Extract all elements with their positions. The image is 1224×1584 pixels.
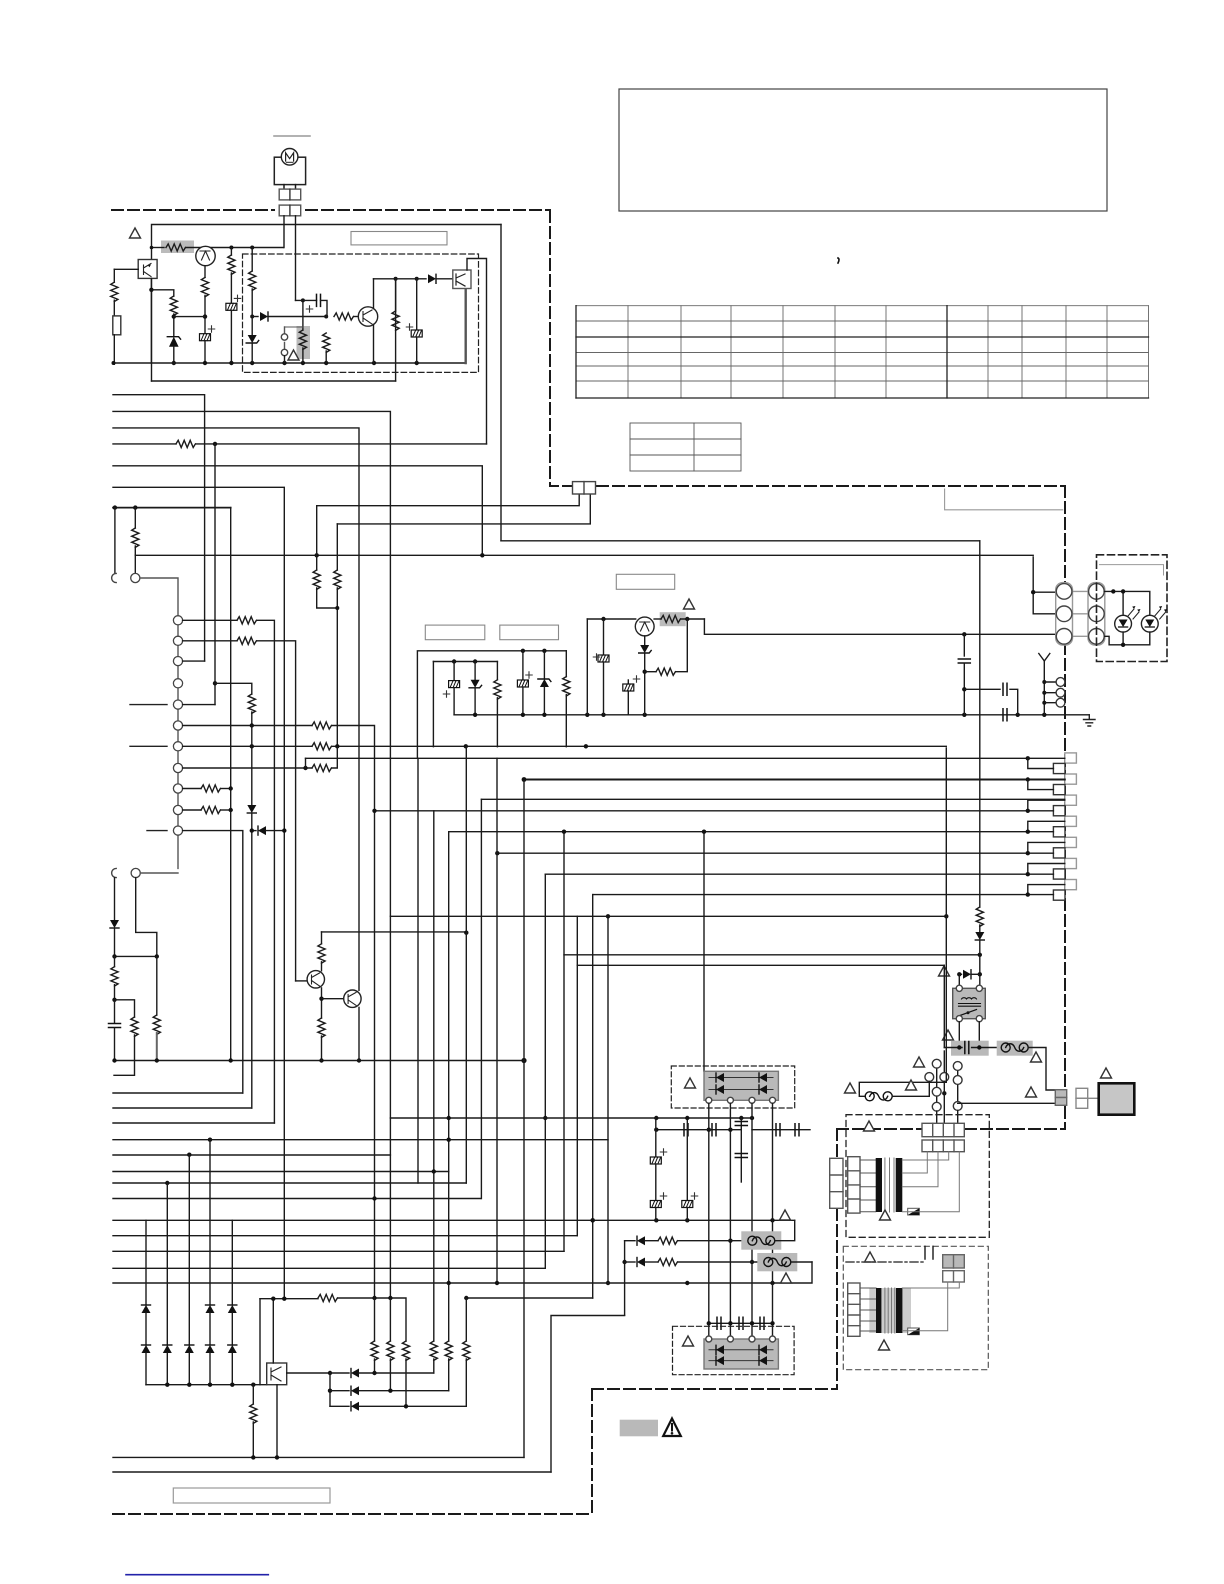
output wire down right [704,619,1055,634]
wire y555.3 [135,554,1033,556]
boundary y486 main [597,485,1065,487]
chain x979.8 down [979,541,981,907]
wire boundary vertical x550 [549,211,551,486]
block outline top [152,225,502,382]
box output down [276,1385,278,1458]
transistors Q1 Q2 [296,980,308,982]
long wire y1171.5 [113,1171,449,1173]
small table [630,423,741,471]
bridge vertical feeds [709,1103,773,1339]
wire y965.3 [577,964,944,966]
wires to connector [1033,557,1056,614]
cap on motor wire2 [296,299,317,301]
jumper circles [284,327,286,349]
boundary y1129 [837,1128,1065,1130]
resistor R-a [496,662,498,680]
branch resistor x251.8 [213,681,217,685]
main bus y1060.5 [115,1060,525,1062]
wire y540.8 [501,540,980,542]
bottom label box [173,1488,330,1503]
long wire y1200.5 [113,1198,481,1200]
wire to AC tabs [958,1102,1056,1104]
lower connector pin pair [112,868,117,877]
connector ladder CN2 [177,625,179,869]
main bus y714.8 [454,714,1089,716]
bridge rectifier D-B2 [673,1326,795,1374]
wire y916.3 [390,915,946,917]
vertical x577.3 [576,916,578,1235]
motor connector CN upper [279,189,301,200]
vertical x524 [523,780,525,1457]
resistor row y1298 [259,1299,261,1385]
stub marks [130,705,167,831]
photo transistor box [267,1363,287,1385]
T1 right wires [902,1152,959,1212]
row 788 [183,788,201,790]
zener D-a [474,662,476,680]
boundary x837 [836,1129,838,1389]
T2 core [869,1288,911,1333]
motor M1 circle [281,149,298,166]
gray resistor vertical [297,326,311,359]
caution gray box [620,1420,658,1437]
inner dashed box [243,254,479,372]
cap C-a [453,662,455,681]
boundary y486 left stub [550,485,572,487]
ecap at 416.7 [416,279,418,330]
LED wiring [1104,591,1150,615]
label box empty [351,232,447,245]
motor legs [284,185,296,190]
diode column x210 [209,1140,211,1305]
connector half pin pair row1 [112,573,117,582]
vertical x704 to bridge [703,832,705,1072]
long wire y1251.3 [113,1250,564,1252]
switch cluster circles [937,1068,958,1102]
T1 connector columns [830,1158,843,1208]
row 620 [183,619,237,621]
bus wire y411.4 [113,411,390,1298]
electrolytic columns [655,1118,657,1157]
tab wires [306,757,1065,759]
row 704 [183,704,215,706]
tab column [1053,753,1076,900]
motor overline [274,135,310,137]
LED dashed box [1097,555,1168,662]
motor M1 body [274,157,305,184]
row 810 [183,809,201,811]
LED2 [1141,615,1158,632]
fuse block [997,1041,1033,1056]
diode column x146 [145,1220,147,1305]
zener left [251,317,253,336]
connector rows above transformer1 [922,1123,964,1136]
resistor R-b [565,651,567,677]
R inside dashed box left [251,248,253,272]
label bracket under boundary [945,489,1063,510]
wire x273.3 up [272,1298,274,1363]
cap row y689.3 [964,688,1000,690]
diode column x189.3 [188,1155,190,1345]
resistor mid [323,333,330,352]
block bottom wire y381 [152,380,396,382]
wire y1123 [113,1122,274,1124]
diode horizontal [252,316,258,318]
transformer1 dashed box [846,1115,989,1238]
row 746 [183,745,312,747]
diode bus y1384.7 [146,1384,267,1386]
resistor to CN pin2 [134,508,136,528]
boundary y1514 bottom [113,1513,592,1515]
ecap column x231.4 [229,246,233,250]
wire y1108 [113,1107,252,1109]
wire x501 down right side [500,225,502,541]
PCB dash-dot boundary top [112,209,274,211]
vertical x466.3 [465,746,467,1183]
vertical x560.7 [563,832,565,1252]
x252 down with diode [251,726,253,806]
diode column x167.3 [166,1183,168,1345]
six resistors [374,1298,376,1341]
AC gray tabs [1055,1090,1066,1098]
jumper socket [113,316,121,335]
wire x151.4 through coupler [150,278,152,363]
left resistor column [114,268,138,270]
cap C-b [522,651,524,680]
bus wire y427.9 [113,428,359,990]
relay RY1 [953,988,986,1018]
filter sub-box outer [417,651,566,758]
collector wire up and right [467,259,487,444]
bus wire y507.6 thick [113,507,231,509]
boundary x592 [591,1389,593,1514]
antenna [1039,654,1050,715]
resistor under Q-A [204,266,206,278]
label boxes pair [425,625,485,640]
resistors x316.7 x337.3 [316,506,318,570]
regulator label box [616,574,674,589]
AC white tabs [1076,1088,1088,1098]
row 641 [183,640,237,642]
wire x395.6 [395,279,397,381]
transformer2 dashed box [843,1246,988,1369]
T1 core [860,1160,876,1212]
branch to zener column [151,290,173,296]
fuse left [859,748,946,1092]
diode rows [287,1372,330,1374]
base resistor + Q-B [334,313,353,320]
left lower chain [114,878,116,920]
cap row y1323.3 [709,1322,773,1324]
AC plug [1101,1068,1112,1078]
long wire y1154.7 [113,1154,390,1156]
NPN box Q-C [453,270,471,289]
LED1 [1115,615,1132,632]
long wire y1472 [113,1471,551,1473]
small ecap left of zener [627,680,629,684]
cap block [943,1030,954,1040]
long wire y1220.3 [113,1219,795,1221]
boundary x1065 upper [1064,486,1066,585]
row 661 [183,660,205,662]
caps chain x964.3 [963,634,965,656]
vertical x608 [607,916,609,1283]
vertical x448.7 [448,832,450,1341]
regulator transistor Q-R [587,618,635,620]
wire pad to circuit [284,216,296,301]
big table grid [576,306,1149,398]
T2 right wires [902,1282,959,1331]
blue link line [126,1574,268,1576]
fuse row1 y1240.7 [625,1240,635,1242]
vertical x545.3 [544,874,546,1268]
gray resistor on top [660,612,686,626]
cap x587.3 [586,619,588,715]
photo-coupler PC1 [138,260,157,279]
zener D-b up [543,651,545,679]
title box [619,89,1107,211]
resistor at 395.6 [395,279,397,311]
diode to relay [959,973,961,975]
T2 connector column [848,1283,860,1336]
x944.3 feed [943,965,945,1047]
zener under Q-R [644,636,646,645]
ground symbol right [1084,715,1096,726]
fuse row2 y1262 [624,1241,626,1315]
long wire y1183 [113,1182,466,1184]
vertical x497 [496,758,498,1283]
cap x603.5 [603,619,605,655]
connector block CN-L [1056,583,1105,645]
bold warning triangle [663,1419,681,1437]
transistor Q-A circle [196,246,215,265]
double cap x741.3 [740,1118,742,1182]
boundary y1389 [592,1388,837,1390]
long wire y1268.3 [113,1267,545,1269]
step y1298b [466,1297,592,1299]
warning triangle [130,228,141,238]
wire y954.8 [564,954,980,956]
step y1315.1 [551,1316,625,1473]
wire y1118 [390,1117,752,1119]
cap row on bus [1003,709,1007,721]
long wire y1235.7 [113,1235,577,1237]
bridge rectifier D-B1 [671,1066,794,1108]
row 768 [183,767,312,769]
long wire y1283 [113,1262,812,1283]
row 725 [183,725,312,727]
wire to CN pin1 [114,508,116,573]
bus wire y465.8 [113,466,482,556]
boundary x1065 lower [1064,643,1066,1129]
motor connector CN lower [279,205,301,216]
gray resistor R-T1 [161,241,194,254]
bus wire y443.9 with resistor [113,443,176,445]
CN pad wires y505.7 y523.9 [317,494,591,524]
long wire y1457.4 [113,1456,524,1458]
comma mark [838,258,839,263]
cap row y1129.7 [656,1129,741,1131]
ground bus y363 [113,362,466,364]
wire y1093 [113,1092,243,1094]
long wire y1139.7 [113,1139,608,1141]
vertical x592.7 [592,895,594,1298]
collector net y278.8 [374,278,427,280]
bus wire y394.7 [113,395,205,661]
wire y799.4 [481,798,1064,800]
bus wire y487.3 [113,487,284,1298]
row 831 [183,831,243,1093]
diode column x232.3 [231,1220,233,1305]
vertical x433.8 [433,811,435,1341]
CN pads [573,482,596,494]
T1 polarity flag [908,1208,920,1215]
resistor under bus [252,1385,254,1404]
